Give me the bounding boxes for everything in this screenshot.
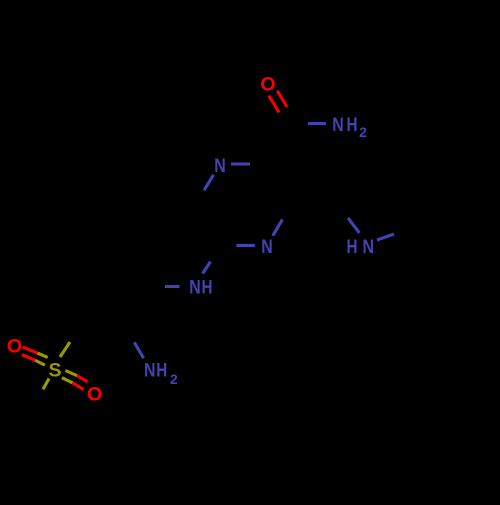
bond N(linker)-C ring half [203, 262, 211, 274]
bond N(aniline)-C half [134, 342, 143, 358]
bond S=O2 line b red half [73, 383, 84, 390]
svg-text:N: N [144, 359, 156, 381]
bond N(pyrrole)-C right half [377, 234, 394, 240]
bond S=O2 line b sulfur half [62, 378, 73, 383]
amide NH2 label [332, 114, 367, 140]
bond S=O1 line a red half [23, 347, 38, 353]
svg-text:O: O [260, 73, 275, 95]
pyrazine N4 label [261, 236, 273, 258]
bond C=O double line a [277, 91, 287, 107]
linker NH label [189, 277, 212, 299]
svg-text:H: H [347, 236, 358, 258]
bond S-CH3 half [43, 379, 49, 390]
svg-text:H: H [347, 114, 358, 136]
svg-text:N: N [363, 236, 375, 258]
carbonyl oxygen O [260, 73, 275, 95]
bond N1-C2 half [231, 162, 250, 165]
bond N(linker)-C aryl half [165, 285, 180, 288]
aniline NH2 label [144, 359, 178, 386]
bond S=O1 line b red half [22, 355, 35, 361]
svg-text:2: 2 [359, 124, 367, 140]
bond S=O1 line b sulfur half [35, 360, 45, 365]
bond N4-C5 half [236, 244, 254, 247]
svg-text:H: H [156, 359, 167, 381]
svg-text:2: 2 [170, 371, 178, 387]
svg-text:O: O [7, 335, 22, 357]
sulfur S label [48, 360, 61, 382]
svg-text:N: N [189, 277, 201, 299]
bond C=O double line b [269, 96, 279, 113]
bond N(pyrrole)-C up-left half [348, 218, 360, 233]
pyrazine N1 label [214, 155, 226, 177]
svg-text:N: N [332, 114, 344, 136]
pyrrole HN label [347, 236, 375, 258]
sulfonyl oxygen O (lower right) [87, 383, 102, 405]
svg-text:H: H [202, 277, 213, 299]
bond N4-C3 half [273, 219, 283, 235]
sulfonyl oxygen O (upper left) [7, 335, 22, 357]
bond S=O2 line a sulfur half [65, 371, 77, 376]
svg-text:N: N [261, 236, 273, 258]
svg-text:S: S [48, 360, 61, 382]
svg-text:O: O [87, 383, 102, 405]
bond S=O2 line a red half [77, 376, 87, 382]
bond S=O1 line a sulfur half [38, 353, 48, 357]
bond S-C(aryl) half [60, 342, 70, 357]
bond N1-C6 half [204, 175, 213, 190]
svg-text:N: N [214, 155, 226, 177]
bond C-N(amide) half [308, 122, 326, 125]
